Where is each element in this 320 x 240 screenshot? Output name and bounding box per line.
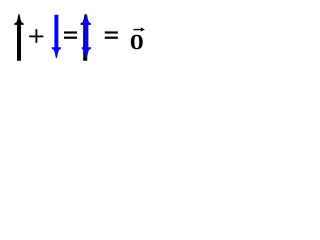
equals sign 1 <box>64 31 77 38</box>
black up arrow (vector a) <box>14 14 24 61</box>
plus sign <box>29 29 43 43</box>
vec accent arrow over zero <box>134 27 145 31</box>
black up arrow behind (overlap group) <box>80 14 90 61</box>
blue double-headed arrow in front (overlap group) <box>82 14 92 58</box>
blue down arrow (vector b) <box>52 15 62 58</box>
background <box>0 0 158 75</box>
equals sign 2 <box>105 31 118 38</box>
zero glyph <box>131 35 143 50</box>
